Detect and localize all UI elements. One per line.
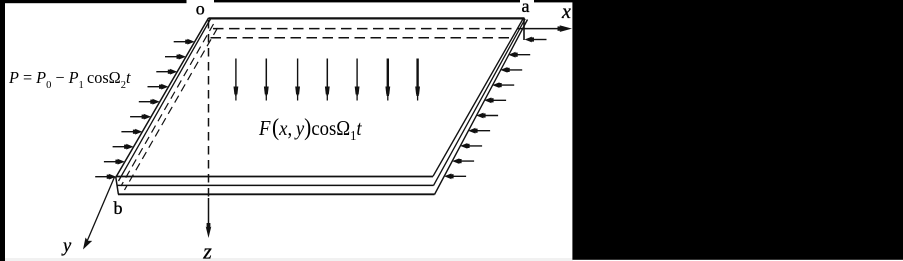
slab left end cap bbox=[116, 177, 119, 195]
right edge outer line bbox=[435, 20, 528, 195]
interior load arrow 5 bbox=[355, 59, 360, 101]
right edge load arrow 1 bbox=[525, 37, 547, 43]
svg-text:b: b bbox=[114, 198, 123, 218]
left edge hidden dashed line 2 bbox=[125, 28, 218, 190]
x axis arrowhead bbox=[560, 25, 573, 32]
y axis line bbox=[85, 177, 115, 246]
interior load arrow 4 bbox=[325, 59, 330, 101]
left edge load arrow 1 bbox=[174, 39, 195, 45]
slab front face bottom line bbox=[118, 193, 435, 195]
right edge load arrow 2 bbox=[508, 52, 530, 58]
svg-text:F (x, y)cosΩ1t: F (x, y)cosΩ1t bbox=[258, 114, 362, 143]
left edge hidden dashed line 1 bbox=[121, 24, 214, 186]
z axis dashed line bbox=[208, 20, 210, 198]
right edge load arrow 10 bbox=[444, 173, 466, 179]
right edge load arrow 8 bbox=[460, 143, 482, 149]
right edge inner line (a to front-right corner) bbox=[433, 18, 524, 176]
left edge load arrow 8 bbox=[113, 144, 134, 150]
right edge load arrow 4 bbox=[492, 82, 514, 88]
left edge load arrow 6 bbox=[130, 114, 151, 120]
z axis solid segment bbox=[208, 198, 210, 230]
interior load arrow 1 bbox=[234, 59, 239, 101]
slab front face top line bbox=[116, 176, 433, 178]
top thin black border line (right of label a) bbox=[534, 0, 574, 2]
right black rectangle bbox=[572, 0, 903, 260]
left edge load arrow 2 bbox=[165, 54, 186, 60]
z axis arrowhead bbox=[206, 227, 212, 239]
svg-text:o: o bbox=[196, 0, 205, 19]
svg-text:x: x bbox=[561, 1, 571, 23]
top thin black border line (right of label o) bbox=[214, 0, 520, 2]
hidden back edge dashed line 1 bbox=[213, 28, 524, 30]
right edge load arrow 3 bbox=[500, 67, 522, 73]
interior load arrow 7 bbox=[415, 59, 420, 101]
top black border strip (left of label o) bbox=[0, 0, 187, 3]
left edge load arrow 4 bbox=[148, 84, 169, 90]
hidden back edge dashed line 2 bbox=[211, 37, 514, 39]
left edge solid line 2 bbox=[119, 19, 211, 181]
right edge middle line bbox=[434, 19, 526, 186]
left edge load arrow 9 bbox=[104, 159, 125, 165]
left edge solid line 1 (o to b corner) bbox=[116, 18, 209, 177]
svg-text:y: y bbox=[61, 237, 72, 257]
left edge load arrow 5 bbox=[139, 99, 160, 105]
left edge load arrow 7 bbox=[121, 129, 142, 135]
interior load arrow 6 bbox=[385, 59, 390, 101]
left edge load arrow 3 bbox=[156, 69, 177, 75]
slab front face middle line bbox=[117, 184, 434, 186]
interior load arrow 3 bbox=[295, 59, 300, 101]
bottom light strip bbox=[0, 258, 573, 261]
left black border strip bbox=[0, 0, 5, 261]
x axis bbox=[524, 28, 562, 30]
plate top back edge o-a bbox=[209, 17, 525, 19]
right edge load arrow 9 bbox=[452, 158, 474, 164]
svg-text:z: z bbox=[202, 239, 212, 261]
y axis arrowhead bbox=[83, 238, 92, 250]
right edge load arrow 7 bbox=[468, 128, 490, 134]
interior load arrow 2 bbox=[264, 59, 269, 101]
left edge load arrow 10 bbox=[95, 174, 116, 180]
corner a vertical edge bbox=[523, 18, 525, 40]
svg-text:a: a bbox=[522, 0, 530, 16]
right edge load arrow 5 bbox=[484, 97, 506, 103]
right edge load arrow 6 bbox=[476, 113, 498, 119]
